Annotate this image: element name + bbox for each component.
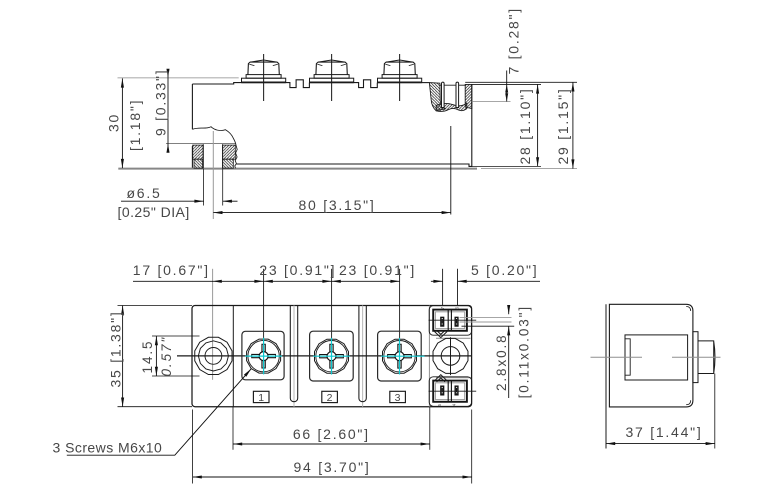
end view: terminal cylinder — [698, 341, 715, 374]
V-notch top — [435, 330, 448, 337]
plan view: left section division line — [232, 306, 234, 407]
svg-text:ø6.5: ø6.5 — [127, 185, 162, 201]
svg-text:5: 5 — [437, 403, 442, 406]
label: 3 Screws M6x10 with leader — [53, 369, 252, 456]
side view: ledge extension line for 28 — [472, 83, 541, 85]
svg-text:2: 2 — [327, 392, 333, 404]
screw 2 — [313, 338, 350, 375]
mounting boss: right lower hatch block — [223, 159, 234, 168]
bottom connector block — [429, 377, 477, 407]
side view: bottom extension line for 28 — [472, 165, 541, 167]
svg-text:2.8x0.8: 2.8x0.8 — [494, 333, 509, 391]
dimension 29 [1.15"] — [555, 82, 573, 168]
svg-text:23 [0.91"]: 23 [0.91"] — [339, 262, 416, 278]
control terminal pocket: right wall (hatched) — [465, 84, 472, 108]
left mounting hole (plan) — [195, 337, 232, 374]
svg-text:29 [1.15"]: 29 [1.15"] — [555, 88, 571, 165]
mounting boss: right upper hatch block — [223, 145, 236, 159]
dimension 14.5 / 0.57" — [140, 336, 199, 377]
faston tab B (side view) — [456, 82, 459, 107]
plan view: division slot 1 — [290, 306, 297, 407]
end view: body outline — [609, 304, 693, 407]
dimension 5 [0.20"] — [431, 262, 540, 282]
right mounting hole (plan) — [433, 337, 470, 377]
svg-text:0.57": 0.57" — [159, 336, 174, 377]
side view: baseplate baseline — [118, 168, 477, 170]
dimension 30 [1.18"] — [106, 78, 239, 168]
svg-text:23 [0.91"]: 23 [0.91"] — [259, 262, 336, 278]
dimension 66 [2.60"] — [233, 407, 430, 450]
mounting boss: left lower hatch block — [194, 159, 203, 168]
svg-text:7 [0.28"]: 7 [0.28"] — [505, 7, 521, 74]
dimension 2.8x0.8 [0.11x0.03"] — [460, 305, 532, 398]
plan view: right section division line (grey) — [428, 306, 430, 407]
mounting boss: left upper hatch block — [193, 145, 203, 159]
bolt terminal 3 — [378, 54, 422, 101]
screw terminal pad 2 — [310, 331, 354, 381]
svg-text:66 [2.60"]: 66 [2.60"] — [293, 426, 370, 442]
control terminal pocket: floor (hatched) — [436, 103, 467, 111]
svg-text:14.5: 14.5 — [140, 340, 155, 374]
faston tab A (side view) — [442, 82, 445, 107]
svg-text:35 [1.38"]: 35 [1.38"] — [108, 311, 124, 388]
svg-text:3: 3 — [395, 392, 401, 404]
extension lines from dimension row into body — [212, 269, 214, 380]
screw terminal pad 1 — [242, 331, 284, 380]
end view: centerlines — [591, 356, 721, 358]
svg-text:4: 4 — [451, 403, 456, 406]
dimension 9 [0.33"] — [152, 69, 168, 152]
svg-text:5 [0.20"]: 5 [0.20"] — [471, 262, 538, 278]
side view: module body outline — [192, 80, 471, 169]
terminal number label 3 — [390, 391, 406, 404]
dimension 17 [0.67"] — [133, 262, 264, 282]
svg-text:[1.18"]: [1.18"] — [127, 99, 143, 151]
plan view: division slot 2 — [359, 306, 366, 407]
terminal number label 2 — [322, 391, 338, 404]
svg-text:30: 30 — [106, 113, 122, 132]
end view: terminal step tab — [693, 332, 698, 383]
hole centerline (side view, grey) — [212, 131, 214, 219]
side view: extension line for 29 — [465, 81, 577, 83]
plan view: module body outline — [192, 306, 472, 407]
screw 3 — [381, 338, 424, 375]
bolt terminal 1 — [242, 54, 286, 101]
top connector block — [429, 306, 477, 336]
svg-text:[0.25" DIA]: [0.25" DIA] — [118, 204, 190, 220]
svg-text:7: 7 — [440, 306, 445, 309]
dimension dia 6.5 [0.25" DIA] — [118, 185, 238, 220]
dimension 28 [1.10"] — [517, 84, 538, 166]
control terminal pocket: left wall (hatched) — [430, 83, 446, 111]
dimension 94 [3.70"] — [193, 410, 472, 484]
svg-text:3 Screws M6x10: 3 Screws M6x10 — [53, 440, 163, 456]
plan view: horizontal centerline — [177, 355, 471, 357]
mounting boss cross-section: hole walls — [203, 144, 222, 168]
dimension 7 [0.28"] — [472, 7, 522, 101]
terminal number label 1 — [253, 391, 269, 404]
svg-text:1: 1 — [258, 392, 264, 404]
svg-text:17 [0.67"]: 17 [0.67"] — [133, 262, 210, 278]
break-out jagged line — [192, 127, 237, 169]
dimension 23 [0.91"] (second) — [332, 262, 416, 282]
svg-text:6: 6 — [455, 306, 460, 309]
mounting boss cross-section: top line — [166, 143, 236, 145]
dimension 35 [1.38"] — [108, 306, 192, 407]
dimension 23 [0.91"] (first) — [259, 262, 336, 282]
side view: far rim line across pocket — [440, 84, 466, 86]
svg-text:37 [1.44"]: 37 [1.44"] — [626, 424, 703, 440]
svg-text:[0.11x0.03"]: [0.11x0.03"] — [517, 305, 532, 398]
dimension 80 [3.15"] — [213, 126, 450, 215]
bolt terminal 2 — [310, 54, 354, 101]
screw 1 (M6 with washer, phillips) — [245, 338, 282, 375]
side view: bottom extension line for 29 — [481, 168, 577, 170]
end view: baseplate edge — [605, 304, 607, 448]
dimension 37 [1.44"] — [606, 374, 715, 449]
screw terminal pad 3 — [378, 331, 422, 381]
V-notch bottom — [435, 375, 448, 382]
end view: window lip — [625, 339, 630, 375]
svg-text:80 [3.15"]: 80 [3.15"] — [299, 197, 376, 213]
hole edge extension lines for dia 6.5 — [204, 169, 223, 206]
end view: contact window rectangle — [625, 335, 688, 380]
svg-text:94 [3.70"]: 94 [3.70"] — [294, 459, 371, 475]
svg-text:9 [0.33"]: 9 [0.33"] — [152, 69, 168, 136]
svg-text:28 [1.10"]: 28 [1.10"] — [517, 88, 533, 165]
end view: inner corner lines — [686, 307, 691, 405]
